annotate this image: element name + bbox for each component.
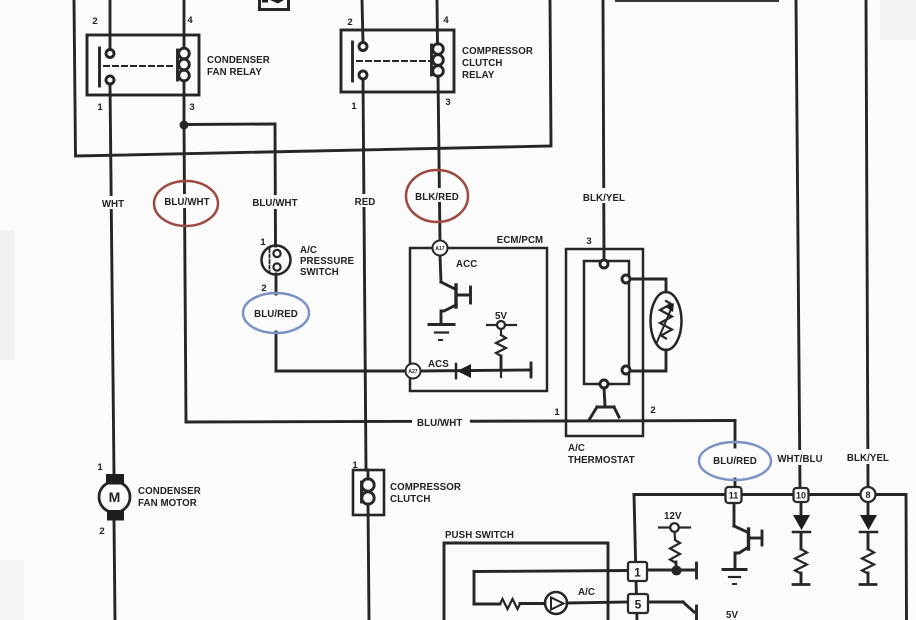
- svg-text:A17: A17: [435, 246, 444, 252]
- svg-text:BLU/WHT: BLU/WHT: [252, 198, 297, 209]
- svg-text:2: 2: [92, 16, 97, 27]
- svg-text:BLK/YEL: BLK/YEL: [847, 453, 889, 464]
- svg-text:1: 1: [554, 407, 560, 418]
- svg-text:BLU/RED: BLU/RED: [254, 309, 298, 320]
- svg-text:1: 1: [352, 460, 358, 471]
- svg-text:COMPRESSOR: COMPRESSOR: [462, 46, 533, 57]
- svg-text:5: 5: [635, 598, 642, 612]
- svg-text:WHT/BLU: WHT/BLU: [777, 454, 822, 465]
- svg-text:1: 1: [351, 101, 357, 112]
- svg-text:ACS: ACS: [428, 359, 449, 370]
- svg-text:CONDENSER: CONDENSER: [138, 486, 201, 497]
- svg-text:CONDENSER: CONDENSER: [207, 55, 270, 66]
- svg-text:BLU/WHT: BLU/WHT: [164, 197, 209, 208]
- svg-text:FAN MOTOR: FAN MOTOR: [138, 498, 197, 509]
- svg-text:3: 3: [586, 236, 591, 247]
- svg-text:ECM/PCM: ECM/PCM: [497, 235, 543, 246]
- svg-text:1: 1: [97, 462, 103, 473]
- svg-text:2: 2: [261, 283, 266, 294]
- svg-text:A/C: A/C: [568, 443, 585, 454]
- svg-text:ACC: ACC: [456, 259, 477, 270]
- svg-text:A/C: A/C: [578, 587, 595, 598]
- svg-text:COMPRESSOR: COMPRESSOR: [390, 482, 461, 493]
- svg-text:FAN RELAY: FAN RELAY: [207, 67, 262, 78]
- svg-text:5V: 5V: [495, 311, 507, 322]
- svg-text:1: 1: [260, 237, 266, 248]
- svg-text:12V: 12V: [664, 511, 682, 522]
- svg-text:1: 1: [634, 566, 641, 580]
- svg-text:4: 4: [187, 15, 193, 26]
- svg-text:PRESSURE: PRESSURE: [300, 256, 355, 267]
- svg-text:M: M: [109, 489, 121, 505]
- svg-text:10: 10: [796, 491, 806, 501]
- svg-text:2: 2: [99, 526, 104, 537]
- svg-text:PUSH SWITCH: PUSH SWITCH: [445, 530, 514, 541]
- svg-text:A27: A27: [408, 369, 417, 375]
- svg-text:CLUTCH: CLUTCH: [462, 58, 502, 69]
- svg-text:2: 2: [347, 17, 352, 28]
- svg-text:BLU/WHT: BLU/WHT: [417, 418, 462, 429]
- svg-text:3: 3: [189, 102, 194, 113]
- svg-text:BLK/YEL: BLK/YEL: [583, 193, 625, 204]
- svg-text:BLK/RED: BLK/RED: [415, 192, 459, 203]
- svg-text:BLU/RED: BLU/RED: [713, 456, 757, 467]
- svg-text:3: 3: [445, 97, 450, 108]
- svg-text:A/C: A/C: [300, 245, 317, 256]
- svg-text:WHT: WHT: [102, 199, 124, 210]
- svg-text:4: 4: [443, 15, 449, 26]
- svg-text:2: 2: [650, 405, 655, 416]
- svg-text:THERMOSTAT: THERMOSTAT: [568, 455, 635, 466]
- svg-text:8: 8: [865, 490, 870, 500]
- svg-text:5V: 5V: [726, 610, 738, 620]
- svg-text:CLUTCH: CLUTCH: [390, 494, 430, 505]
- svg-text:RED: RED: [355, 197, 376, 208]
- svg-text:11: 11: [729, 491, 739, 501]
- svg-text:RELAY: RELAY: [462, 70, 495, 81]
- svg-text:1: 1: [97, 102, 103, 113]
- svg-text:SWITCH: SWITCH: [300, 267, 339, 278]
